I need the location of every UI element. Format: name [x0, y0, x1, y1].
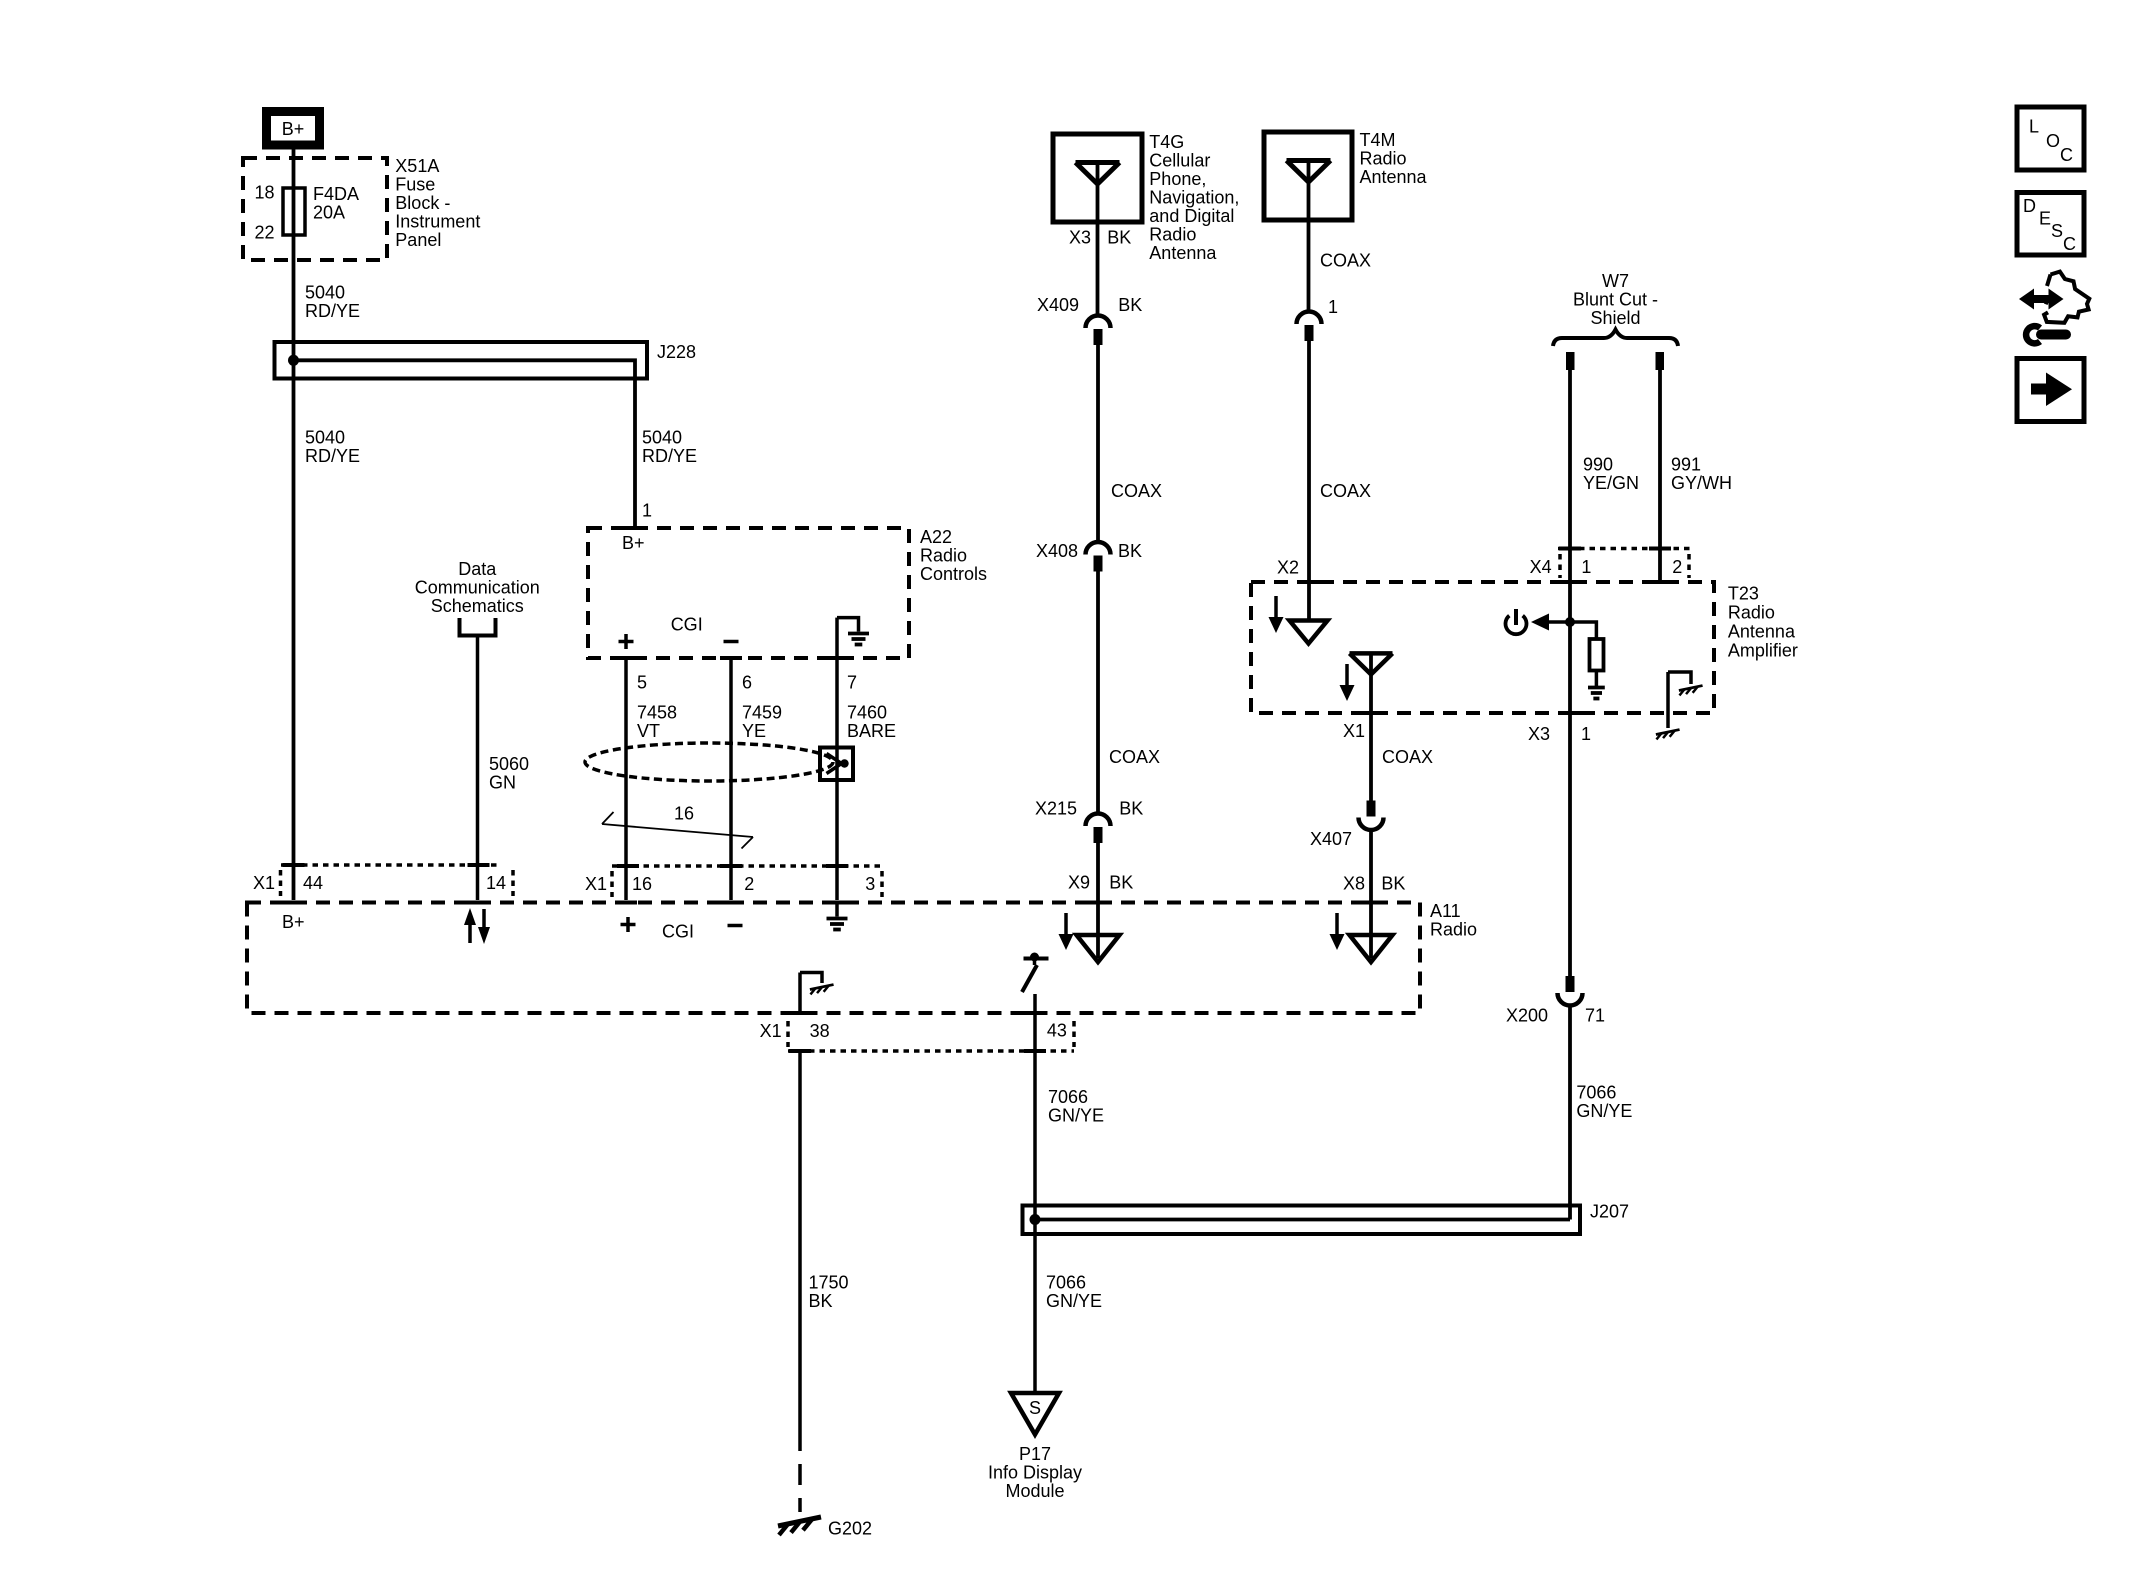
svg-text:T4M: T4M	[1360, 130, 1396, 150]
svg-text:5040: 5040	[642, 428, 682, 448]
svg-text:GN: GN	[489, 773, 516, 793]
svg-text:22: 22	[255, 223, 275, 243]
svg-text:T23: T23	[1728, 583, 1759, 603]
svg-text:18: 18	[255, 183, 275, 203]
svg-text:GN/YE: GN/YE	[1576, 1101, 1632, 1121]
svg-text:CGI: CGI	[662, 922, 694, 942]
svg-text:Radio: Radio	[920, 545, 967, 565]
svg-text:16: 16	[632, 874, 652, 894]
svg-text:Amplifier: Amplifier	[1728, 640, 1798, 660]
svg-text:C: C	[2060, 145, 2073, 165]
svg-text:RD/YE: RD/YE	[305, 446, 360, 466]
svg-text:X3: X3	[1528, 724, 1550, 744]
svg-text:71: 71	[1585, 1006, 1605, 1026]
svg-text:6: 6	[742, 673, 752, 693]
svg-text:X215: X215	[1035, 799, 1077, 819]
svg-text:RD/YE: RD/YE	[642, 446, 697, 466]
svg-text:Instrument: Instrument	[395, 211, 480, 231]
svg-text:BK: BK	[1118, 295, 1142, 315]
svg-text:B+: B+	[282, 119, 305, 139]
svg-text:X1: X1	[253, 873, 275, 893]
svg-text:YE/GN: YE/GN	[1583, 473, 1639, 493]
svg-text:1: 1	[1328, 297, 1338, 317]
svg-text:Block -: Block -	[395, 193, 450, 213]
svg-text:5: 5	[637, 673, 647, 693]
svg-text:X1: X1	[1343, 721, 1365, 741]
svg-text:S: S	[2051, 221, 2063, 241]
svg-text:7066: 7066	[1046, 1273, 1086, 1293]
svg-text:COAX: COAX	[1111, 481, 1162, 501]
svg-text:O: O	[2046, 131, 2060, 151]
svg-text:38: 38	[810, 1021, 830, 1041]
svg-text:COAX: COAX	[1109, 747, 1160, 767]
svg-text:7066: 7066	[1048, 1087, 1088, 1107]
svg-text:COAX: COAX	[1320, 251, 1371, 271]
svg-text:Antenna: Antenna	[1149, 243, 1217, 263]
svg-text:J207: J207	[1590, 1202, 1629, 1222]
svg-text:990: 990	[1583, 455, 1613, 475]
svg-text:7459: 7459	[742, 703, 782, 723]
svg-text:VT: VT	[637, 721, 660, 741]
svg-text:Phone,: Phone,	[1149, 169, 1206, 189]
svg-text:7458: 7458	[637, 703, 677, 723]
svg-text:X4: X4	[1530, 557, 1552, 577]
svg-text:X9: X9	[1068, 873, 1090, 893]
svg-text:B+: B+	[622, 533, 645, 553]
svg-text:5060: 5060	[489, 754, 529, 774]
svg-text:7066: 7066	[1576, 1083, 1616, 1103]
svg-text:COAX: COAX	[1320, 481, 1371, 501]
svg-text:B+: B+	[282, 912, 305, 932]
svg-text:Panel: Panel	[395, 230, 441, 250]
svg-text:S: S	[1029, 1398, 1041, 1418]
svg-text:C: C	[2063, 234, 2076, 254]
svg-text:RD/YE: RD/YE	[305, 301, 360, 321]
svg-text:X408: X408	[1036, 541, 1078, 561]
svg-text:BK: BK	[1118, 541, 1142, 561]
svg-text:Info Display: Info Display	[988, 1463, 1082, 1483]
svg-text:2: 2	[1672, 557, 1682, 577]
svg-text:X3: X3	[1069, 227, 1091, 247]
svg-text:Communication: Communication	[415, 578, 540, 598]
svg-text:7460: 7460	[847, 703, 887, 723]
svg-text:5040: 5040	[305, 283, 345, 303]
svg-text:P17: P17	[1019, 1444, 1051, 1464]
svg-text:BARE: BARE	[847, 721, 896, 741]
svg-text:3: 3	[865, 874, 875, 894]
svg-text:A22: A22	[920, 527, 952, 547]
svg-text:Radio: Radio	[1430, 920, 1477, 940]
svg-text:GY/WH: GY/WH	[1671, 473, 1732, 493]
svg-text:20A: 20A	[313, 203, 345, 223]
svg-text:G202: G202	[828, 1519, 872, 1539]
svg-text:991: 991	[1671, 455, 1701, 475]
svg-text:Fuse: Fuse	[395, 174, 435, 194]
svg-text:BK: BK	[1109, 873, 1133, 893]
svg-text:J228: J228	[657, 342, 696, 362]
svg-text:X409: X409	[1037, 295, 1079, 315]
svg-text:CGI: CGI	[671, 615, 703, 635]
svg-text:Cellular: Cellular	[1149, 151, 1210, 171]
svg-text:and Digital: and Digital	[1149, 206, 1234, 226]
svg-text:X200: X200	[1506, 1006, 1548, 1026]
svg-text:X1: X1	[585, 874, 607, 894]
svg-text:Shield: Shield	[1590, 308, 1640, 328]
svg-text:E: E	[2039, 209, 2051, 229]
svg-text:BK: BK	[809, 1291, 833, 1311]
svg-text:F4DA: F4DA	[313, 184, 359, 204]
svg-text:7: 7	[847, 673, 857, 693]
svg-text:16: 16	[674, 804, 694, 824]
svg-text:1750: 1750	[809, 1273, 849, 1293]
svg-text:Radio: Radio	[1360, 149, 1407, 169]
svg-text:X2: X2	[1277, 558, 1299, 578]
svg-text:43: 43	[1047, 1021, 1067, 1041]
svg-text:GN/YE: GN/YE	[1048, 1106, 1104, 1126]
svg-text:L: L	[2029, 116, 2039, 136]
svg-text:BK: BK	[1107, 227, 1131, 247]
svg-text:Antenna: Antenna	[1360, 167, 1428, 187]
svg-text:GN/YE: GN/YE	[1046, 1291, 1102, 1311]
svg-text:2: 2	[744, 874, 754, 894]
svg-text:T4G: T4G	[1149, 132, 1184, 152]
svg-text:X8: X8	[1343, 874, 1365, 894]
svg-text:X407: X407	[1310, 829, 1352, 849]
svg-text:Module: Module	[1005, 1481, 1064, 1501]
svg-text:A11: A11	[1430, 901, 1461, 921]
svg-text:5040: 5040	[305, 428, 345, 448]
svg-text:1: 1	[1581, 557, 1591, 577]
svg-text:X51A: X51A	[395, 156, 439, 176]
svg-text:1: 1	[1581, 724, 1591, 744]
svg-text:Radio: Radio	[1728, 602, 1775, 622]
svg-text:Antenna: Antenna	[1728, 621, 1796, 641]
svg-text:14: 14	[486, 873, 506, 893]
svg-text:COAX: COAX	[1382, 747, 1433, 767]
svg-text:Controls: Controls	[920, 564, 987, 584]
svg-text:Schematics: Schematics	[431, 596, 524, 616]
svg-text:Radio: Radio	[1149, 225, 1196, 245]
svg-text:YE: YE	[742, 721, 766, 741]
svg-text:44: 44	[303, 873, 323, 893]
svg-text:X1: X1	[760, 1021, 782, 1041]
svg-text:BK: BK	[1119, 799, 1143, 819]
svg-text:1: 1	[642, 501, 652, 521]
svg-text:Navigation,: Navigation,	[1149, 188, 1239, 208]
svg-text:W7: W7	[1602, 271, 1629, 291]
svg-text:Blunt Cut -: Blunt Cut -	[1573, 290, 1658, 310]
svg-text:D: D	[2023, 196, 2036, 216]
svg-text:BK: BK	[1381, 874, 1405, 894]
svg-text:Data: Data	[458, 559, 497, 579]
